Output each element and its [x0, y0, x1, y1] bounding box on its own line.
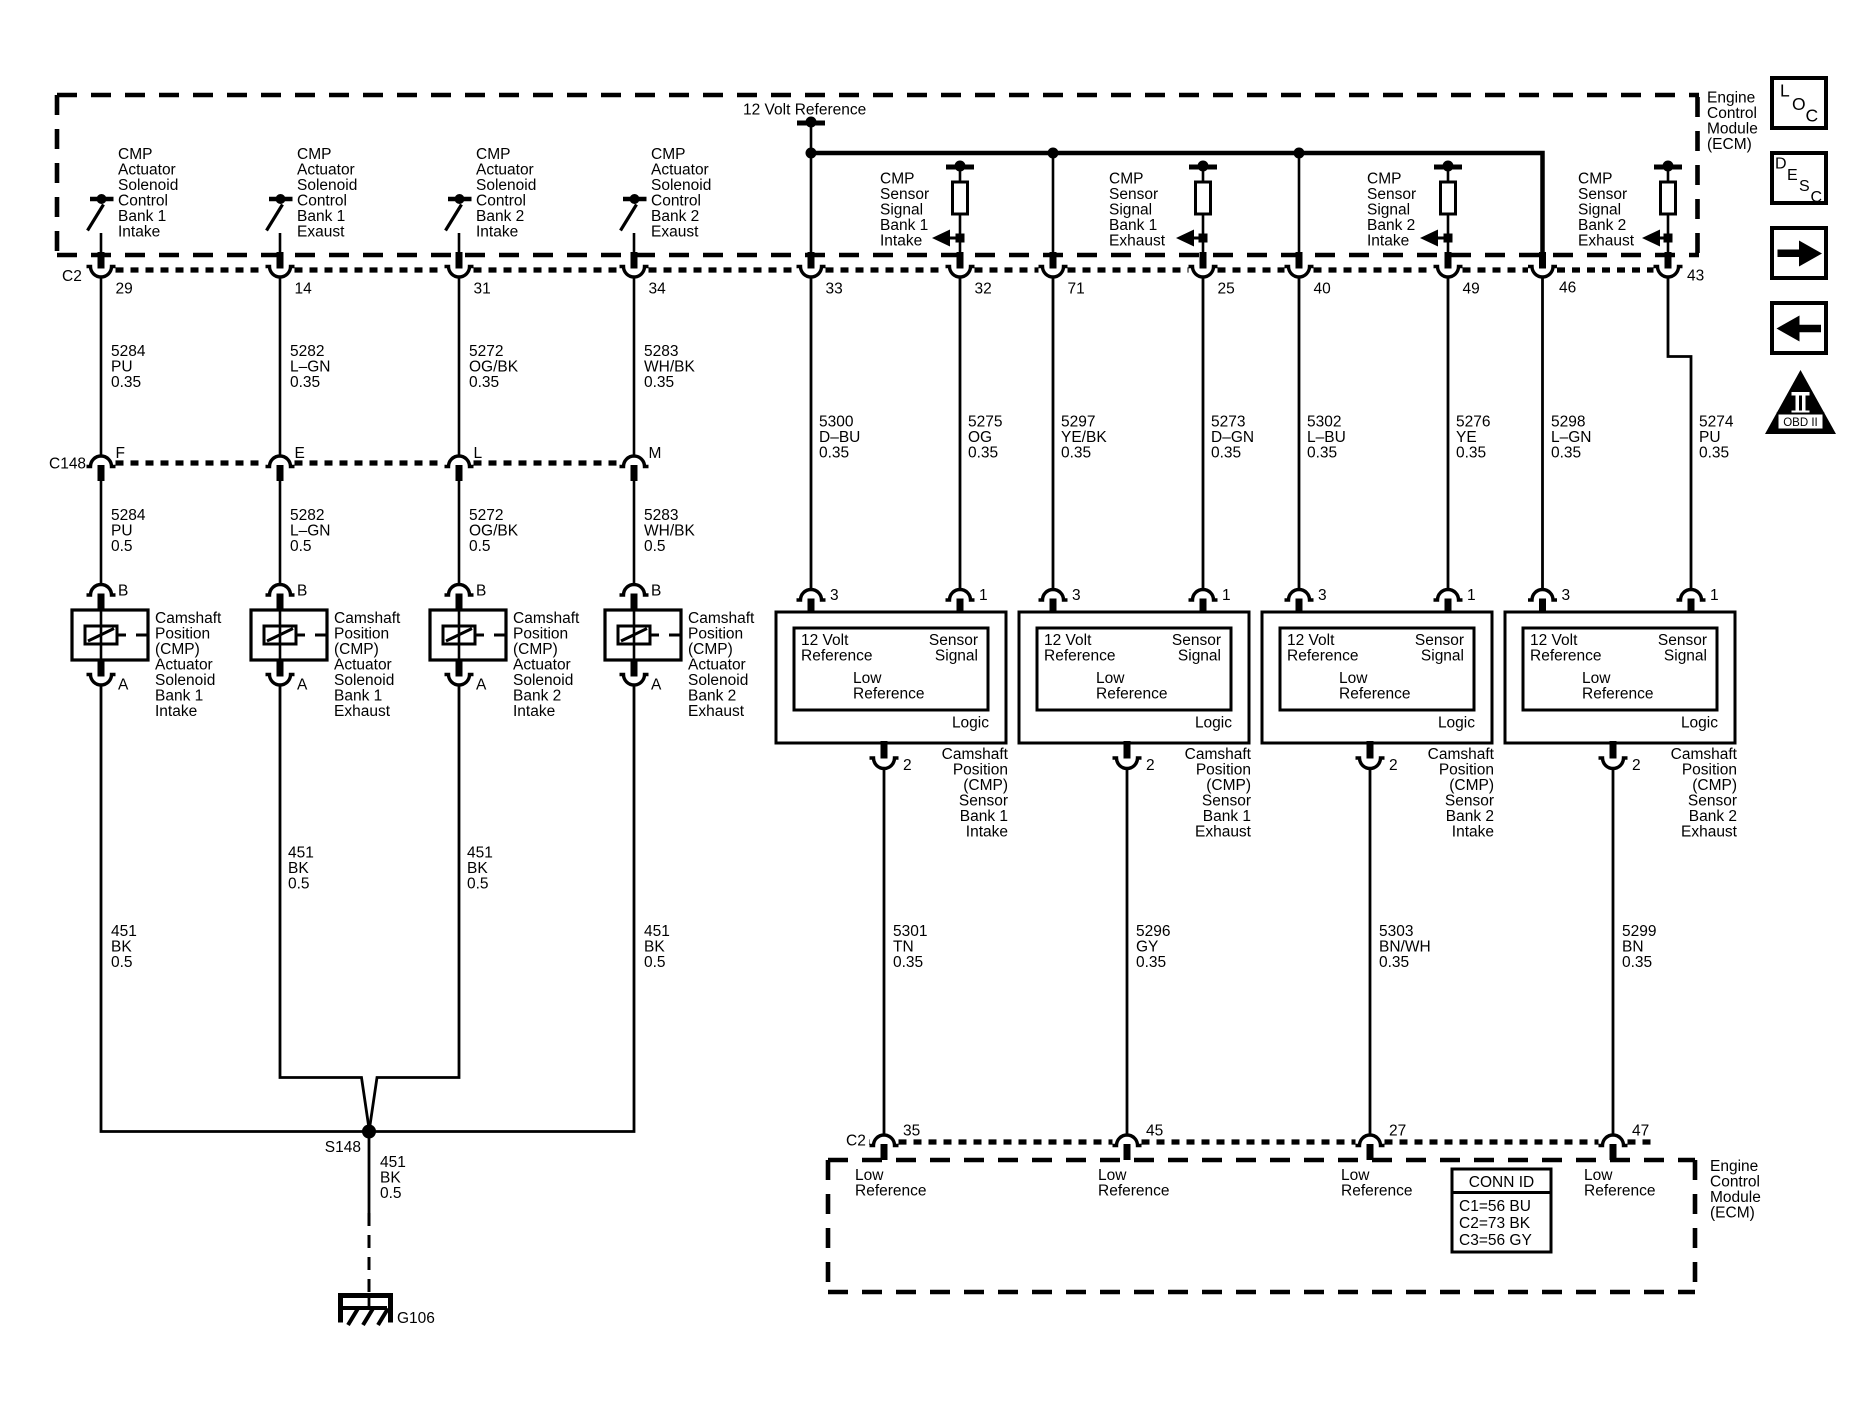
wire: bus to 12V reference connector: [1298, 155, 1301, 253]
svg-text:Control: Control: [651, 193, 701, 210]
svg-text:0.35: 0.35: [469, 374, 499, 391]
label: camshaft position sensor Bank 2 Exhaust: [1671, 746, 1738, 841]
solenoid L1: camshaft position actuator solenoid: [72, 610, 148, 660]
svg-text:BK: BK: [380, 1170, 401, 1187]
svg-text:(CMP): (CMP): [688, 641, 733, 658]
wire: C2 to sensor pin: [959, 277, 962, 589]
svg-text:BK: BK: [111, 939, 132, 956]
svg-text:Module: Module: [1707, 121, 1758, 138]
svg-text:1: 1: [1222, 587, 1231, 604]
svg-text:0.5: 0.5: [467, 876, 489, 893]
connector pin 1 of sensor B2: [1189, 587, 1231, 613]
svg-text:Intake: Intake: [966, 824, 1008, 841]
svg-text:Camshaft: Camshaft: [1185, 746, 1252, 763]
svg-text:Low: Low: [1341, 1167, 1370, 1184]
svg-text:45: 45: [1146, 1123, 1163, 1140]
svg-text:5272: 5272: [469, 343, 503, 360]
connector pin 3 of sensor B1: [797, 587, 839, 613]
svg-text:O: O: [1792, 94, 1806, 114]
svg-text:G106: G106: [397, 1310, 435, 1327]
svg-text:Signal: Signal: [1664, 648, 1707, 665]
supply node for pull-up resistor 1: [946, 161, 974, 183]
svg-text:BK: BK: [288, 860, 309, 877]
svg-text:Signal: Signal: [880, 202, 923, 219]
svg-text:46: 46: [1559, 280, 1576, 297]
svg-text:Intake: Intake: [118, 224, 160, 241]
svg-text:Logic: Logic: [1681, 715, 1718, 732]
wire: C148 to solenoid: [100, 481, 103, 585]
svg-text:0.35: 0.35: [1211, 445, 1241, 462]
svg-text:12 Volt Reference: 12 Volt Reference: [743, 102, 866, 119]
svg-text:WH/BK: WH/BK: [644, 359, 695, 376]
svg-text:OBD II: OBD II: [1783, 417, 1818, 429]
svg-text:Position: Position: [1682, 762, 1737, 779]
svg-text:Camshaft: Camshaft: [513, 610, 580, 627]
svg-text:Sensor: Sensor: [929, 632, 978, 649]
connector pin B of solenoid 3: [445, 583, 487, 612]
svg-text:0.5: 0.5: [111, 538, 133, 555]
arrow: sensor signal into logic: [1642, 230, 1673, 247]
svg-text:32: 32: [975, 281, 992, 298]
svg-text:Bank 1: Bank 1: [297, 208, 345, 225]
node: 12 Volt Reference supply: [743, 102, 866, 155]
svg-text:5284: 5284: [111, 507, 146, 524]
svg-text:Solenoid: Solenoid: [651, 177, 711, 194]
connector C2 pin 35: [870, 1123, 921, 1161]
svg-text:0.5: 0.5: [290, 538, 312, 555]
wire: C2 to sensor pin: [810, 277, 813, 589]
svg-text:Camshaft: Camshaft: [155, 610, 222, 627]
svg-text:12 Volt: 12 Volt: [1287, 632, 1335, 649]
connector pin 2 of sensor B2: [1113, 741, 1155, 774]
label: circuit 5283 WH/BK 0.5: [644, 507, 695, 555]
svg-text:5283: 5283: [644, 343, 678, 360]
wire: sensor low reference to C2: [883, 769, 886, 1136]
wire: C148 to solenoid: [279, 481, 282, 585]
junction on bus at pin 33 leg: [806, 148, 817, 159]
wire: resistor to signal connector: [1667, 214, 1670, 253]
svg-text:C: C: [1806, 106, 1819, 126]
label: CMP actuator solenoid control Bank 1 Intake: [118, 146, 178, 241]
svg-text:Low: Low: [1098, 1167, 1127, 1184]
svg-text:5298: 5298: [1551, 414, 1585, 431]
svg-text:5282: 5282: [290, 343, 324, 360]
svg-text:B: B: [476, 583, 486, 600]
connector C2 pin 25: [1189, 252, 1235, 298]
svg-text:2: 2: [1389, 757, 1398, 774]
svg-text:3: 3: [1072, 587, 1081, 604]
connector C148 pin L: [445, 445, 483, 481]
label: circuit 5272 OG/BK 0.5: [469, 507, 519, 555]
svg-text:L: L: [474, 445, 483, 462]
svg-text:WH/BK: WH/BK: [644, 523, 695, 540]
label: circuit 451 BK 0.5 (solenoid 2): [288, 845, 314, 893]
connector C2 pin 45: [1113, 1123, 1164, 1161]
label: circuit 5273 D–GN 0.35: [1211, 414, 1254, 462]
svg-text:5297: 5297: [1061, 414, 1095, 431]
svg-text:Bank 2: Bank 2: [1367, 217, 1415, 234]
svg-text:0.35: 0.35: [644, 374, 674, 391]
wire: S148 to ground: [368, 1132, 371, 1214]
svg-text:CMP: CMP: [297, 146, 331, 163]
svg-text:Reference: Reference: [1582, 686, 1654, 703]
svg-text:Position: Position: [1439, 762, 1494, 779]
svg-text:Position: Position: [1196, 762, 1251, 779]
label: circuit 451 BK 0.5 (ground leg): [380, 1154, 406, 1202]
svg-text:L–GN: L–GN: [1551, 429, 1592, 446]
wire: C2 to sensor pin: [1447, 277, 1450, 589]
connector line C2 (dotted): [116, 267, 1654, 272]
svg-text:Position: Position: [155, 626, 210, 643]
svg-text:A: A: [476, 677, 487, 694]
label: circuit 5300 D–BU 0.35: [819, 414, 860, 462]
svg-text:5300: 5300: [819, 414, 854, 431]
svg-text:PU: PU: [111, 359, 133, 376]
svg-text:CMP: CMP: [1109, 171, 1143, 188]
svg-text:71: 71: [1068, 281, 1085, 298]
driver switch: CMP actuator solenoid control 4: [621, 194, 647, 231]
svg-text:Actuator: Actuator: [513, 657, 571, 674]
svg-text:Engine: Engine: [1707, 90, 1755, 107]
svg-text:Solenoid: Solenoid: [476, 177, 536, 194]
svg-text:Intake: Intake: [155, 703, 197, 720]
svg-text:B: B: [118, 583, 128, 600]
svg-text:43: 43: [1687, 268, 1704, 285]
svg-text:Sensor: Sensor: [1415, 632, 1464, 649]
svg-text:GY: GY: [1136, 939, 1158, 956]
sensor B3: camshaft position sensor: [1262, 612, 1492, 743]
svg-text:PU: PU: [111, 523, 133, 540]
svg-text:Solenoid: Solenoid: [513, 672, 573, 689]
svg-text:CONN ID: CONN ID: [1469, 1174, 1534, 1191]
svg-text:BN: BN: [1622, 939, 1644, 956]
svg-text:Bank 2: Bank 2: [1446, 808, 1494, 825]
ECM module outline (top, dashed): [57, 95, 1699, 255]
svg-text:Actuator: Actuator: [297, 162, 355, 179]
connector pin A of solenoid 1: [87, 660, 130, 694]
svg-text:YE: YE: [1456, 429, 1477, 446]
label: circuit 5274 PU 0.35: [1699, 414, 1734, 462]
driver switch: CMP actuator solenoid control 3: [446, 194, 472, 231]
svg-text:1: 1: [1710, 587, 1719, 604]
svg-text:Bank 2: Bank 2: [1578, 217, 1626, 234]
connector pin 2 of sensor B3: [1356, 741, 1398, 774]
label: camshaft position actuator solenoid Bank 2 Intake: [513, 610, 580, 720]
svg-text:5275: 5275: [968, 414, 1002, 431]
svg-text:47: 47: [1632, 1123, 1649, 1140]
wire: resistor to signal connector: [1202, 214, 1205, 253]
svg-text:34: 34: [649, 281, 667, 298]
svg-text:Bank 1: Bank 1: [1203, 808, 1251, 825]
wire: sensor low reference to C2: [1612, 769, 1615, 1136]
icon: back arrow button: [1772, 303, 1826, 353]
connector C2 pin 33: [797, 252, 843, 298]
svg-text:5302: 5302: [1307, 414, 1341, 431]
label: circuit 5303 BN/WH 0.35: [1379, 923, 1431, 971]
supply node for pull-up resistor 3: [1434, 161, 1462, 183]
label: circuit 5299 BN 0.35: [1622, 923, 1656, 971]
ground G106: [338, 1294, 435, 1327]
svg-text:Module: Module: [1710, 1189, 1761, 1206]
svg-text:5282: 5282: [290, 507, 324, 524]
svg-text:Control: Control: [476, 193, 526, 210]
svg-text:1: 1: [1467, 587, 1476, 604]
wire: C2 to sensor pin: [1052, 277, 1055, 589]
connector pin 1 of sensor B3: [1434, 587, 1476, 613]
svg-text:451: 451: [380, 1154, 406, 1171]
svg-text:12 Volt: 12 Volt: [1530, 632, 1578, 649]
svg-text:Logic: Logic: [1195, 715, 1232, 732]
connector C2 pin 27: [1356, 1123, 1407, 1161]
svg-text:31: 31: [474, 281, 491, 298]
label: circuit 451 BK 0.5 (solenoid 4): [644, 923, 670, 971]
svg-text:0.35: 0.35: [290, 374, 320, 391]
svg-text:0.5: 0.5: [644, 954, 666, 971]
svg-text:Intake: Intake: [880, 233, 922, 250]
svg-text:C1=56 BU: C1=56 BU: [1459, 1198, 1531, 1215]
svg-text:Intake: Intake: [513, 703, 555, 720]
connector C148 pin F: [87, 445, 125, 481]
connector C2 pin 46: [1528, 252, 1576, 297]
label: Low Reference (ECM input): [1584, 1167, 1656, 1200]
svg-text:Camshaft: Camshaft: [688, 610, 755, 627]
svg-text:Intake: Intake: [1452, 824, 1494, 841]
label: camshaft position sensor Bank 1 Exhaust: [1185, 746, 1252, 841]
resistor R1 (CMP sensor pull-up): [953, 182, 968, 214]
svg-text:CMP: CMP: [880, 171, 914, 188]
svg-text:29: 29: [116, 281, 133, 298]
svg-text:M: M: [649, 445, 662, 462]
arrow: sensor signal into logic: [1420, 230, 1453, 247]
label: camshaft position actuator solenoid Bank 1 Exhaust: [334, 610, 401, 720]
svg-text:Sensor: Sensor: [1367, 186, 1416, 203]
svg-text:Low: Low: [1584, 1167, 1613, 1184]
icon: forward arrow button: [1772, 228, 1826, 278]
svg-text:Sensor: Sensor: [880, 186, 929, 203]
svg-text:Bank 1: Bank 1: [118, 208, 166, 225]
svg-text:A: A: [297, 677, 308, 694]
label: circuit 5275 OG 0.35: [968, 414, 1002, 462]
driver switch: CMP actuator solenoid control 1: [88, 194, 114, 231]
svg-text:5273: 5273: [1211, 414, 1245, 431]
svg-text:Sensor: Sensor: [1172, 632, 1221, 649]
wire: switch to connector C2: [279, 233, 282, 253]
svg-text:CMP: CMP: [476, 146, 510, 163]
connector C2 pin 34: [620, 252, 667, 298]
svg-text:C2: C2: [62, 268, 82, 285]
svg-text:2: 2: [1146, 757, 1155, 774]
svg-text:0.35: 0.35: [819, 445, 849, 462]
label: CMP actuator solenoid control Bank 2 Intake: [476, 146, 536, 241]
svg-text:E: E: [295, 445, 305, 462]
svg-text:0.35: 0.35: [1307, 445, 1337, 462]
label: circuit 5284 PU 0.35: [111, 343, 146, 391]
svg-text:(CMP): (CMP): [963, 777, 1008, 794]
svg-text:L–GN: L–GN: [290, 523, 331, 540]
svg-text:0.35: 0.35: [968, 445, 998, 462]
svg-text:OG/BK: OG/BK: [469, 523, 519, 540]
junction on bus at pin 40 leg: [1294, 148, 1305, 159]
svg-text:PU: PU: [1699, 429, 1721, 446]
svg-text:E: E: [1787, 167, 1798, 184]
svg-text:Low: Low: [1339, 670, 1368, 687]
svg-text:(ECM): (ECM): [1707, 136, 1752, 153]
svg-text:(CMP): (CMP): [513, 641, 558, 658]
connector C2 pin 14: [266, 252, 313, 298]
label: C2: [62, 268, 82, 285]
svg-text:Intake: Intake: [476, 224, 518, 241]
svg-text:A: A: [651, 677, 662, 694]
connector pin 1 of sensor B1: [946, 587, 988, 613]
svg-text:CMP: CMP: [1367, 171, 1401, 188]
connector C148 pin M: [620, 445, 662, 481]
supply node for pull-up resistor 4: [1654, 161, 1682, 183]
svg-text:BN/WH: BN/WH: [1379, 939, 1431, 956]
svg-text:Solenoid: Solenoid: [297, 177, 357, 194]
svg-text:L–GN: L–GN: [290, 359, 331, 376]
svg-text:Solenoid: Solenoid: [118, 177, 178, 194]
label: CMP actuator solenoid control Bank 2 Exaust: [651, 146, 711, 241]
svg-text:0.35: 0.35: [1136, 954, 1166, 971]
wire: C148 to solenoid: [633, 481, 636, 585]
svg-text:5299: 5299: [1622, 923, 1656, 940]
svg-text:Reference: Reference: [853, 686, 925, 703]
svg-text:Sensor: Sensor: [1202, 793, 1251, 810]
svg-text:Reference: Reference: [1096, 686, 1168, 703]
connector pin 2 of sensor B1: [870, 741, 912, 774]
svg-text:Exhaust: Exhaust: [688, 703, 745, 720]
svg-text:5296: 5296: [1136, 923, 1170, 940]
label: C148: [49, 456, 86, 473]
svg-text:Reference: Reference: [1341, 1183, 1413, 1200]
solenoid L4: camshaft position actuator solenoid: [605, 610, 681, 660]
svg-text:0.35: 0.35: [1699, 445, 1729, 462]
svg-text:A: A: [118, 677, 129, 694]
svg-text:Exhaust: Exhaust: [1681, 824, 1738, 841]
label: Engine Control Module (ECM) bottom: [1710, 1158, 1761, 1222]
svg-text:CMP: CMP: [1578, 171, 1612, 188]
connector pin B of solenoid 1: [87, 583, 129, 612]
svg-text:Bank 1: Bank 1: [960, 808, 1008, 825]
svg-text:Actuator: Actuator: [334, 657, 392, 674]
svg-text:TN: TN: [893, 939, 914, 956]
svg-text:Reference: Reference: [1530, 648, 1602, 665]
label: circuit 5296 GY 0.35: [1136, 923, 1170, 971]
svg-text:40: 40: [1314, 281, 1332, 298]
label: circuit 5298 L–GN 0.35: [1551, 414, 1592, 462]
label: Low Reference (ECM input): [1098, 1167, 1170, 1200]
svg-text:Position: Position: [953, 762, 1008, 779]
wire: resistor to signal connector: [1447, 214, 1450, 253]
svg-text:YE/BK: YE/BK: [1061, 429, 1107, 446]
svg-text:451: 451: [288, 845, 314, 862]
resistor R3 (CMP sensor pull-up): [1441, 182, 1456, 214]
label: circuit 5282 L–GN 0.5: [290, 507, 331, 555]
svg-text:Bank 2: Bank 2: [476, 208, 524, 225]
svg-text:B: B: [651, 583, 661, 600]
wire: C2 pin 43 to sensor pin 1 (jogged): [1668, 277, 1691, 589]
wire: C2 to C148: [100, 277, 103, 456]
svg-text:3: 3: [1318, 587, 1327, 604]
wire: C2 to C148: [458, 277, 461, 456]
svg-text:Reference: Reference: [1339, 686, 1411, 703]
label: C2 (bottom): [846, 1133, 866, 1150]
wire: bus to 12V reference connector: [810, 155, 813, 253]
label: Low Reference (ECM input): [855, 1167, 927, 1200]
svg-text:Sensor: Sensor: [1109, 186, 1158, 203]
svg-text:Actuator: Actuator: [651, 162, 709, 179]
svg-text:0.35: 0.35: [1551, 445, 1581, 462]
label: camshaft position sensor Bank 2 Intake: [1428, 746, 1495, 841]
svg-text:0.35: 0.35: [1379, 954, 1409, 971]
supply node for pull-up resistor 2: [1189, 161, 1217, 183]
svg-text:Sensor: Sensor: [1578, 186, 1627, 203]
svg-text:L–BU: L–BU: [1307, 429, 1346, 446]
label: Low Reference (ECM input): [1341, 1167, 1413, 1200]
svg-text:Reference: Reference: [1584, 1183, 1656, 1200]
connector pin 1 of sensor B4: [1677, 587, 1719, 613]
svg-text:BK: BK: [644, 939, 665, 956]
svg-text:12 Volt: 12 Volt: [801, 632, 849, 649]
connector pin A of solenoid 2: [266, 660, 309, 694]
svg-text:0.35: 0.35: [1061, 445, 1091, 462]
label: CMP sensor signal Bank 2 Intake: [1367, 171, 1416, 250]
svg-text:Intake: Intake: [1367, 233, 1409, 250]
wire: C2 to sensor pin: [1541, 277, 1544, 589]
wire: C2 to sensor pin: [1298, 277, 1301, 589]
svg-text:Solenoid: Solenoid: [688, 672, 748, 689]
svg-text:Position: Position: [688, 626, 743, 643]
svg-text:C2=73 BK: C2=73 BK: [1459, 1215, 1531, 1232]
svg-text:Control: Control: [297, 193, 347, 210]
svg-text:Bank 2: Bank 2: [1689, 808, 1737, 825]
svg-text:Control: Control: [118, 193, 168, 210]
svg-text:(CMP): (CMP): [334, 641, 379, 658]
svg-text:F: F: [116, 445, 125, 462]
svg-text:S: S: [1799, 178, 1810, 195]
svg-text:Camshaft: Camshaft: [1428, 746, 1495, 763]
label: circuit 5302 L–BU 0.35: [1307, 414, 1346, 462]
svg-text:Sensor: Sensor: [1658, 632, 1707, 649]
svg-text:0.35: 0.35: [893, 954, 923, 971]
svg-text:(CMP): (CMP): [1449, 777, 1494, 794]
svg-text:0.35: 0.35: [1622, 954, 1652, 971]
svg-text:C3=56 GY: C3=56 GY: [1459, 1232, 1532, 1249]
svg-text:Camshaft: Camshaft: [334, 610, 401, 627]
svg-text:Signal: Signal: [1178, 648, 1221, 665]
solenoid L3: camshaft position actuator solenoid: [430, 610, 506, 660]
svg-text:0.5: 0.5: [644, 538, 666, 555]
wire: sensor low reference to C2: [1369, 769, 1372, 1136]
connector C2 pin 29: [87, 252, 133, 298]
svg-text:Exhaust: Exhaust: [1578, 233, 1635, 250]
svg-text:5284: 5284: [111, 343, 146, 360]
resistor R2 (CMP sensor pull-up): [1196, 182, 1211, 214]
svg-text:Bank 2: Bank 2: [688, 688, 736, 705]
svg-text:Actuator: Actuator: [476, 162, 534, 179]
svg-text:Exhaust: Exhaust: [1109, 233, 1166, 250]
svg-text:OG/BK: OG/BK: [469, 359, 519, 376]
wire: dashed to ground G106: [368, 1213, 371, 1294]
svg-text:Sensor: Sensor: [1445, 793, 1494, 810]
label: circuit 5301 TN 0.35: [893, 923, 927, 971]
label: camshaft position sensor Bank 1 Intake: [942, 746, 1009, 841]
wire: resistor to signal connector: [959, 214, 962, 253]
svg-text:Exaust: Exaust: [651, 224, 699, 241]
label: circuit 5283 WH/BK 0.35: [644, 343, 695, 391]
connector pin B of solenoid 4: [620, 583, 662, 612]
svg-text:Control: Control: [1710, 1174, 1760, 1191]
